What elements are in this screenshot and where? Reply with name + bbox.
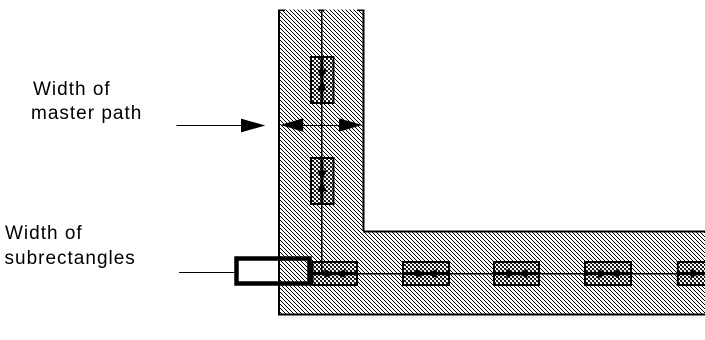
subrectangle H3 [494,262,539,285]
vertical centerline [321,10,323,274]
subrectangle H4 [585,262,631,285]
master path right edge of vertical leg [363,10,365,232]
subrectangle H2 [403,262,449,285]
top edge tick left [278,9,285,11]
subrectangle V2 [311,158,334,204]
svg-text:Width of: Width of [33,79,111,100]
top edge tick center [319,9,325,11]
subrectangle V1 [311,57,334,103]
top edge tick right [357,9,364,11]
label: Width of subrectangles [5,223,136,269]
master path left edge [278,10,280,316]
svg-text:master path: master path [31,103,142,124]
master path bottom edge [278,314,705,316]
master path L-shaped hatched body [278,10,705,316]
subrectangle H5 (clipped at right) [678,262,705,285]
leader line to highlight box [179,272,234,274]
horizontal centerline [312,273,705,275]
width-of-subrectangles highlight box (thick) [237,259,310,284]
master path width double arrow inside path [280,118,362,131]
svg-text:subrectangles: subrectangles [5,248,136,269]
label: Width of master path [31,79,142,124]
svg-text:Width of: Width of [5,223,83,244]
master path width pointer arrow [177,119,266,133]
master path top edge of horizontal leg [363,231,705,233]
subrectangle H1 (at corner) [313,262,358,285]
